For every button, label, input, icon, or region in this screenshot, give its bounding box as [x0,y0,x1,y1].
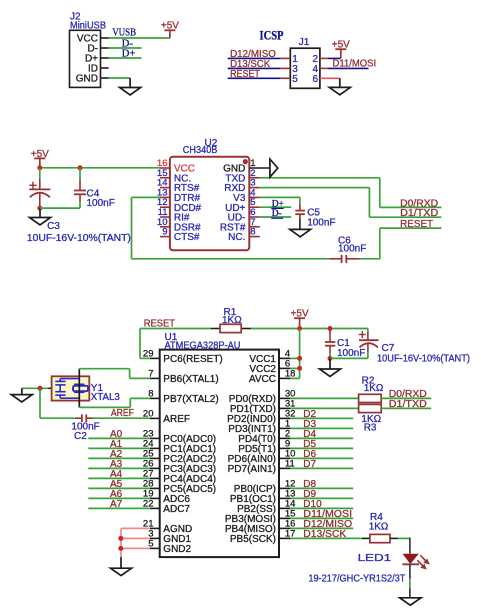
wire C3-C4 bottom [40,207,80,209]
resistor R1 1K [211,328,220,330]
wire UD- / D- label [260,216,291,218]
pin-1 marker dot U2 [243,159,248,164]
svg-text:J1: J1 [299,37,310,48]
capacitor C2 100nF / AREF [39,388,41,418]
svg-text:C7: C7 [382,343,395,354]
ground (C1/C7) [329,358,331,369]
svg-text:VUSB: VUSB [112,27,136,38]
capacitor C4 100nF [79,168,81,179]
ground (C3) [39,208,41,217]
pin stubs J2 [101,37,109,39]
pin stubs J1 left [280,57,290,59]
ground (Y1) [21,388,23,394]
pin stubs U1 right [279,357,290,359]
capacitor C5 100nF [260,196,300,198]
svg-text:5: 5 [292,74,298,85]
wire XTAL1 to PB6 [78,369,80,408]
crystal Y1 XTAL3 [22,387,48,389]
svg-text:100nF: 100nF [337,348,365,359]
junction [118,546,123,551]
wire +5V to U2 VCC [40,167,160,169]
svg-text:A7: A7 [110,499,123,510]
wire D+ net [109,57,142,59]
wires D2-D13 digital pins [290,417,353,419]
capacitor C6 100nF [330,258,342,260]
svg-text:D1/TXD: D1/TXD [400,208,438,219]
wire TXD to D0/RXD [260,177,380,179]
wire RXD to D1/TXD [260,187,370,189]
svg-text:PB7(XTAL2): PB7(XTAL2) [163,394,218,405]
svg-text:6: 6 [313,74,319,85]
svg-text:9: 9 [162,227,167,238]
junction [328,326,333,331]
svg-text:10UF-16V-10%(TANT): 10UF-16V-10%(TANT) [27,233,131,244]
svg-text:C3: C3 [47,221,60,232]
junction [297,326,302,331]
wire DTR# to C6 [132,196,161,198]
svg-text:PD7(AIN1): PD7(AIN1) [228,464,276,475]
junction [297,366,302,371]
resistor R2 1K [290,397,358,399]
svg-text:CH340B: CH340B [183,145,218,156]
wire J1 pin6 to ground [320,77,340,79]
wire D- net [109,47,142,49]
svg-text:AREF: AREF [111,408,134,419]
svg-text:AREF: AREF [163,414,190,425]
resistor R4 1K / D13 SCK [290,537,362,539]
wires A0-A7 analog inputs [88,437,150,439]
wire D11/MOSI [320,67,328,69]
svg-text:D11/MOSI: D11/MOSI [333,59,377,70]
svg-text:ICSP: ICSP [260,29,284,43]
ground (U2 pin1, right arrow) [249,167,270,169]
wire D13/SCK [228,67,281,69]
svg-text:D+: D+ [122,48,136,59]
svg-text:D13/SCK: D13/SCK [303,529,346,540]
svg-text:GND: GND [76,73,98,84]
capacitor C7 10UF tantalum [367,329,369,332]
svg-text:RESET: RESET [230,69,260,80]
LED light arrows [420,555,426,561]
wire C6 to RESET net [360,258,380,260]
svg-text:100nF: 100nF [338,244,366,255]
wire AGND/GND1/GND2 bus [121,527,150,529]
svg-text:10UF-16V-10%(TANT): 10UF-16V-10%(TANT) [377,354,470,365]
junction [328,356,333,361]
junction [37,165,42,170]
LED LED1 [409,538,411,554]
junction [37,206,42,211]
junction [38,386,43,391]
svg-text:AVCC: AVCC [249,374,276,385]
wire D12/MISO [228,57,281,59]
wire VUSB net [109,37,170,39]
junction [118,536,123,541]
svg-text:100nF: 100nF [307,217,335,228]
pin stubs U2 right [249,177,259,179]
svg-text:PC6(RESET): PC6(RESET) [163,354,222,365]
wire RESET net label [380,227,442,229]
ground (U1 GND) [120,557,122,568]
svg-text:100nF: 100nF [87,198,115,209]
ground (J1) [339,78,341,87]
svg-text:LED1: LED1 [358,553,392,564]
svg-text:1KΩ: 1KΩ [369,521,389,532]
svg-text:GND2: GND2 [163,544,191,555]
wire XTAL2 to PB7 [79,406,130,408]
junction [78,165,83,170]
svg-text:D7: D7 [303,459,316,470]
svg-text:PB6(XTAL1): PB6(XTAL1) [163,374,218,385]
wire C1-C7 bottom [330,357,368,359]
svg-text:8: 8 [250,227,255,238]
pin stubs U2 left [160,167,170,169]
wire UD+ / D+ label [260,206,291,208]
svg-text:1KΩ: 1KΩ [364,383,384,394]
wire +5V to VCC pins [299,329,301,379]
svg-text:XTAL3: XTAL3 [91,392,120,403]
wire J1 pin2 to +5V [320,57,328,59]
svg-text:ADC7: ADC7 [163,504,190,515]
svg-text:NC.: NC. [228,232,245,243]
svg-text:PB5(SCK): PB5(SCK) [230,534,276,545]
pin stubs U1 left [150,357,160,359]
wire RESET (to J1) [228,77,281,79]
junction [297,356,302,361]
ground (C5) [290,229,311,236]
svg-text:C2: C2 [74,431,87,442]
svg-text:D1/TXD: D1/TXD [389,399,427,410]
svg-text:R3: R3 [364,422,377,433]
svg-text:RESET: RESET [400,219,433,230]
capacitor C3 10UF tantalum [39,168,41,179]
wire J2 GND [109,77,131,79]
resistor R3 1K [290,407,358,409]
svg-text:1KΩ: 1KΩ [222,315,242,326]
capacitor C1 100nF [329,329,331,343]
ground (J2) [129,78,131,88]
wire R1 to +5V rail [251,328,368,330]
svg-text:19-217/GHC-YR1S2/3T: 19-217/GHC-YR1S2/3T [308,574,405,585]
ground (LED1) [400,598,421,605]
svg-text:CTS#: CTS# [174,232,200,243]
